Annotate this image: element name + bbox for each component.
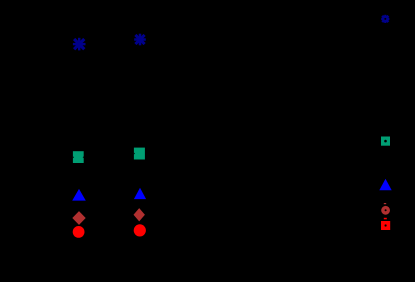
marker asterisk navy col3 small with black dot	[381, 15, 389, 23]
marker square green col1	[73, 151, 84, 163]
marker circle red col2	[134, 224, 146, 236]
marker asterisk navy col2	[134, 34, 146, 46]
marker circle dark red col3 with black hole	[381, 206, 390, 215]
marker square green col3 with black dot	[381, 137, 390, 146]
marker triangle blue col3	[379, 179, 391, 190]
marker square red col3 with black dot	[381, 221, 390, 230]
marker triangle blue col1	[72, 189, 86, 201]
marker diamond firebrick col1	[72, 211, 85, 225]
marker diamond firebrick col2	[134, 208, 145, 221]
errorbar cap dark red col3	[384, 203, 386, 204]
marker triangle blue col2	[134, 188, 146, 199]
marker asterisk navy col1	[73, 38, 86, 51]
marker circle red col1	[73, 226, 85, 238]
errorbar cap red col3	[384, 218, 387, 220]
marker square green col2	[134, 148, 145, 160]
